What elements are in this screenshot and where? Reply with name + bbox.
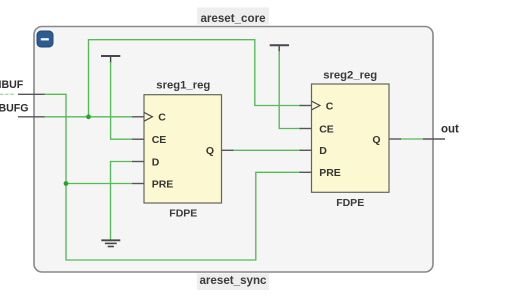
wire areset port stub (gray): [18, 93, 45, 95]
clock triangle pin C: [144, 112, 152, 121]
pin stub CE (gray): [300, 128, 312, 130]
svg-text:PRE: PRE: [319, 167, 341, 179]
wire Q of sreg1 to D of sreg2: [233, 149, 303, 151]
wire gnd to D of sreg1: [111, 162, 133, 241]
pin stub Q (gray): [389, 138, 401, 140]
svg-text:FDPE: FDPE: [169, 208, 197, 220]
power VCC supply V1 (bar): [101, 55, 120, 57]
wire vcc to CE of sreg1: [111, 62, 133, 139]
wire out port stub (gray): [423, 138, 445, 140]
label areset_core highlight chip: [197, 8, 269, 25]
svg-text:sreg2_reg: sreg2_reg: [323, 69, 377, 81]
svg-text:out: out: [441, 124, 459, 136]
svg-text:CE: CE: [319, 123, 334, 135]
collapse button: [37, 31, 53, 47]
pin stub PRE (gray): [300, 171, 312, 173]
svg-text:CE: CE: [152, 134, 167, 146]
svg-text:D: D: [319, 145, 327, 157]
hierarchy block areset_sync (container): [34, 27, 433, 273]
ground symbol G1: [101, 240, 120, 246]
junction areset at PRE branch: [64, 181, 69, 186]
svg-text:areset_core: areset_core: [200, 12, 266, 25]
pin stub Q (gray): [222, 149, 234, 151]
power VCC supply V2 (bar): [270, 44, 289, 46]
svg-text:Q: Q: [206, 145, 214, 157]
junction clk: [86, 114, 91, 119]
pin stub CE (gray): [132, 138, 144, 140]
wire areset off-page dashed lead: [0, 93, 14, 95]
svg-text:sreg1_reg: sreg1_reg: [156, 80, 210, 92]
svg-text:IBUF: IBUF: [0, 79, 24, 91]
wire net clk: horizontal into C of sreg1: [45, 116, 133, 118]
flip-flop U2 sreg2_reg (FDPE): [300, 69, 402, 209]
pin stub C (gray): [132, 116, 144, 118]
clock triangle pin C: [312, 101, 320, 110]
svg-text:FDPE: FDPE: [336, 197, 364, 209]
pin stub D (gray): [132, 161, 144, 163]
wire Q of sreg2 to out (green span): [400, 138, 424, 140]
svg-text:C: C: [326, 100, 334, 112]
pin stub D (gray): [300, 149, 312, 151]
flip-flop U1 sreg1_reg (FDPE): [132, 80, 234, 220]
svg-text:Q: Q: [372, 134, 380, 146]
wire clk branch: up, across top, down to C of sreg2: [89, 40, 302, 117]
pin stub C (gray): [300, 105, 312, 107]
svg-text:C: C: [158, 112, 166, 124]
pin stub PRE (gray): [132, 183, 144, 185]
wire areset branch to PRE of sreg1: [66, 183, 132, 185]
svg-text:D: D: [152, 156, 160, 168]
wire clk port stub (gray): [18, 116, 45, 118]
label areset_sync highlight chip: [197, 274, 269, 291]
svg-text:BUFG: BUFG: [0, 102, 29, 114]
wire vcc2 to CE of sreg2: [279, 51, 302, 129]
svg-text:PRE: PRE: [152, 178, 174, 190]
svg-text:areset_sync: areset_sync: [199, 274, 267, 287]
wire net areset: horizontal then down left rail: [45, 94, 302, 260]
